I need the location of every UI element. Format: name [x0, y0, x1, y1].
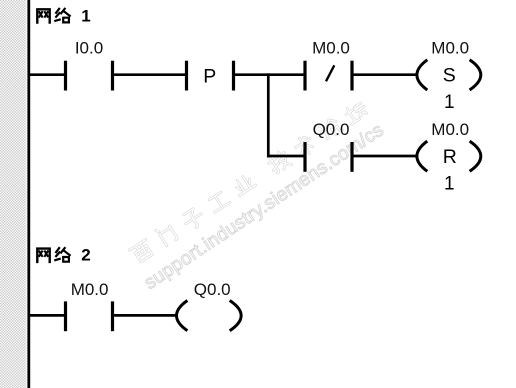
svg-text:2: 2	[81, 246, 90, 265]
svg-text:I0.0: I0.0	[75, 39, 103, 58]
svg-text:M0.0: M0.0	[431, 120, 469, 139]
svg-text:R: R	[443, 146, 457, 168]
svg-text:1: 1	[81, 6, 90, 25]
svg-text:M0.0: M0.0	[312, 39, 350, 58]
svg-text:M0.0: M0.0	[431, 39, 469, 58]
svg-text:M0.0: M0.0	[71, 280, 109, 299]
svg-text:1: 1	[444, 92, 455, 113]
svg-text:1: 1	[444, 173, 455, 194]
svg-text:P: P	[203, 65, 216, 87]
svg-text:Q0.0: Q0.0	[313, 120, 350, 139]
svg-text:Q0.0: Q0.0	[194, 280, 231, 299]
svg-text:S: S	[443, 65, 456, 87]
